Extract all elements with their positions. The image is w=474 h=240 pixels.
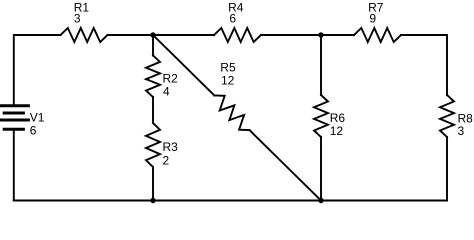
- svg-text:12: 12: [330, 124, 344, 138]
- node B junction dot: [318, 32, 323, 37]
- battery V1 plate long: [0, 119, 28, 122]
- battery V1 plate short: [4, 112, 23, 115]
- battery V1 plate long top: [0, 104, 28, 107]
- svg-text:2: 2: [163, 153, 170, 167]
- wire R8 to bottom-right corner: [446, 137, 448, 201]
- svg-text:R3: R3: [163, 140, 179, 154]
- wire R3 to bottom rail: [152, 167, 154, 201]
- wire node A to R4: [153, 34, 214, 36]
- svg-text:12: 12: [221, 73, 235, 87]
- wire node B down to R6: [320, 35, 322, 95]
- svg-text:6: 6: [229, 11, 236, 25]
- wire R4 to node B: [261, 34, 321, 36]
- node D junction dot (R3 bottom): [150, 198, 155, 203]
- wire top-left from battery branch to R1: [14, 35, 61, 105]
- wire node A diagonal to R5: [153, 35, 214, 95]
- wire R6 to bottom node: [320, 137, 322, 201]
- node A junction dot: [150, 32, 155, 37]
- svg-text:R2: R2: [163, 72, 179, 86]
- svg-text:3: 3: [74, 11, 81, 25]
- svg-text:R5: R5: [220, 60, 236, 74]
- wire node B to R7: [321, 34, 354, 36]
- resistor R2: [146, 56, 160, 98]
- resistor R8: [440, 95, 454, 137]
- node C junction dot (R5/R6 bottom): [318, 198, 323, 203]
- wire R5 to bottom node: [250, 130, 322, 200]
- battery V1 plate short bottom: [4, 128, 23, 131]
- resistor R3: [146, 123, 160, 167]
- wire node A down to R2: [152, 35, 154, 56]
- wire R7 to top-right corner: [401, 35, 447, 95]
- svg-text:4: 4: [163, 85, 170, 99]
- resistor R6: [314, 95, 328, 137]
- wire R2 to R3: [152, 97, 154, 123]
- wire bottom rail: [14, 200, 447, 202]
- svg-text:6: 6: [30, 124, 37, 138]
- svg-text:3: 3: [458, 124, 465, 138]
- svg-text:9: 9: [369, 11, 376, 25]
- wire battery to bottom-left corner: [13, 131, 15, 201]
- resistor R7: [354, 28, 401, 42]
- svg-text:V1: V1: [30, 111, 45, 125]
- resistor R5: [214, 95, 249, 130]
- resistor R4: [214, 28, 261, 42]
- wire R1 to node A: [108, 34, 154, 36]
- resistor R1: [61, 28, 108, 42]
